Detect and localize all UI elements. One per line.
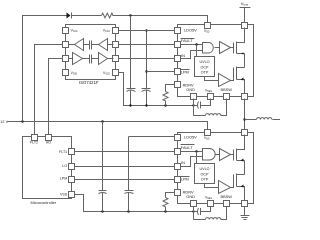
svg-text:GND: GND [186, 194, 195, 199]
svg-text:OCP: OCP [201, 65, 210, 69]
U3 internal IN wire [181, 51, 203, 59]
U4 pin SOURCE [242, 201, 248, 207]
U4 pin VDD [204, 130, 211, 141]
U4 driver buffer low [205, 181, 234, 194]
svg-text:OTP: OTP [201, 178, 209, 182]
svg-text:LDO5V: LDO5V [184, 28, 197, 33]
inductor L2 (output filter) [245, 118, 281, 120]
wire FLT1 to low-side FAULT [75, 151, 175, 153]
wire bootstrap rail [23, 16, 208, 122]
svg-text:LPM: LPM [60, 177, 67, 181]
wire switch node [244, 99, 246, 130]
U3 Si FET Q2 [234, 54, 245, 94]
junction FAULT / UVLO low [195, 150, 197, 152]
microcontroller pin VSS [60, 192, 75, 198]
wire VNEG circuit high-side [194, 99, 211, 116]
isolator U1 pin INB [113, 42, 119, 48]
U4 pin RDRV [175, 189, 194, 195]
svg-text:LPM: LPM [181, 69, 189, 74]
svg-text:VSS2: VSS2 [103, 71, 110, 76]
capacitor C4 (LDO5V low-side bypass) [125, 137, 134, 212]
isolator U1 pin OUTB [63, 42, 69, 48]
ground symbol [241, 207, 250, 220]
svg-text:IN: IN [181, 53, 185, 58]
svg-text:FLT1: FLT1 [59, 150, 67, 154]
svg-text:Microcontroller: Microcontroller [31, 200, 57, 205]
U4 pin FAULT [175, 145, 195, 155]
wire low-side LDO5V [129, 136, 175, 138]
U4 pin GND [186, 194, 196, 206]
svg-text:HO: HO [46, 141, 52, 145]
isolator U1 pin VCC2 [103, 28, 119, 34]
svg-text:12 V: 12 V [0, 120, 8, 124]
U3 internal FAULT wire [181, 44, 203, 46]
U4 pin VNEG [205, 195, 214, 206]
diode D1 bootstrap [67, 13, 72, 19]
wire GND2 to ground rail [119, 73, 194, 106]
wire INB to FAULT [119, 44, 175, 46]
svg-text:LO: LO [62, 164, 67, 168]
wire LO to low-side IN [75, 166, 175, 168]
isolator U1 pin INA [63, 56, 69, 62]
junction LDO5V/VCC2 [145, 29, 147, 31]
junction switch node [243, 118, 245, 120]
junction gnd rail / C1 [129, 104, 131, 106]
node Vbus [240, 1, 251, 23]
gate driver U3 LMG3410 high-side body [178, 25, 254, 97]
svg-text:LPM: LPM [181, 176, 189, 181]
buffer channel B rx (points left) [69, 39, 84, 51]
junction bottom rail / C3 [101, 210, 103, 212]
isolator U1 ISO7421F body [66, 25, 116, 86]
microcontroller U2 body [23, 137, 72, 205]
inductor L1 (buck-boost high-side) [194, 99, 227, 116]
node 12V label [0, 120, 8, 124]
U3 driver buffer low [205, 74, 234, 87]
isolator U1 pin GND2 [103, 70, 118, 76]
U3 pin IN [175, 53, 186, 61]
microcontroller pin FLT1 [59, 149, 74, 155]
U3 pin LPM [175, 69, 190, 75]
junction boot rail / VDD cap [129, 14, 131, 16]
U3 pin LDO5V [175, 28, 198, 34]
svg-text:IN: IN [181, 160, 185, 165]
U4 pin LDO5V [175, 135, 198, 141]
isolator U1 pin VCC1 [63, 28, 79, 34]
U4 internal IN wire [181, 157, 203, 167]
microcontroller pin LO [62, 164, 74, 170]
svg-text:OCP: OCP [201, 172, 210, 176]
U3 UVLO/OCP/OTP block [195, 45, 215, 77]
capacitor C1 (VDD high-side bypass) [127, 16, 136, 106]
svg-text:ISO7421F: ISO7421F [79, 80, 99, 85]
wire VSS to bottom ground rail [75, 195, 194, 212]
svg-text:VCC1: VCC1 [71, 29, 79, 34]
U3 pin DRAIN [242, 23, 248, 29]
microcontroller pin LPM [60, 177, 75, 183]
wire OUTA to IN [119, 58, 175, 60]
isolation capacitor channel B [84, 41, 99, 50]
svg-text:OTP: OTP [201, 71, 209, 75]
inductor L3 (buck-boost low-side) [194, 207, 227, 220]
gate driver U4 LMG3410 low-side body [178, 133, 254, 204]
buffer channel A rx (points right) [99, 53, 114, 65]
resistor R3 (RDRV low-side) [163, 193, 175, 212]
capacitor C3 (12V bypass) [99, 122, 107, 212]
buffer channel B tx (points left) [99, 39, 114, 51]
svg-text:VSS: VSS [60, 193, 68, 197]
U3 driver buffer high [215, 42, 234, 54]
junction 12V/bypass cap [101, 120, 103, 122]
wire VNEG circuit low-side [194, 207, 211, 220]
svg-text:UVLO: UVLO [199, 60, 209, 64]
U4 Si FET Q4 [234, 161, 245, 201]
isolation capacitor channel A [83, 55, 99, 64]
svg-text:BBSW: BBSW [221, 194, 233, 199]
U3 pin FAULT [175, 38, 195, 48]
U4 AND gate [203, 149, 216, 161]
resistor R1 bootstrap [102, 13, 114, 18]
U3 pin SOURCE [242, 94, 248, 100]
junction gnd rail / C2 [145, 104, 147, 106]
U3 pin VNEG [205, 88, 214, 99]
junction bottom rail / GND pin low [192, 210, 194, 212]
U4 pin BBSW [221, 194, 233, 206]
U4 pin LPM [175, 176, 190, 182]
wire LPM to low-side LPM [75, 179, 175, 181]
U3 pin GND [186, 87, 196, 99]
U4 GaN FET Q3 [234, 135, 245, 162]
isolator U1 pin OUTA [113, 56, 119, 62]
isolator U1 pin GND1 [63, 70, 79, 76]
junction gnd rail / GND pin [192, 104, 194, 106]
junction gnd rail / RDRV resistor [164, 104, 166, 106]
junction LDO5V/LPM tie [145, 70, 147, 72]
wire HO to ISO INA [49, 59, 63, 135]
U4 internal FAULT wire [181, 151, 203, 153]
U3 pin BBSW [221, 87, 233, 99]
svg-text:FLT2: FLT2 [30, 141, 38, 145]
U4 UVLO/OCP/OTP block [195, 152, 215, 184]
microcontroller pin HO [46, 135, 52, 145]
junction FAULT / UVLO [195, 43, 197, 45]
buffer channel A tx (points right) [69, 53, 83, 65]
resistor R2 (RDRV high-side) [163, 85, 175, 106]
svg-text:Vbus: Vbus [241, 1, 249, 7]
wire LPM tie [147, 71, 175, 73]
wire VCC2 to LDO5V [119, 30, 175, 32]
svg-text:BBSW: BBSW [221, 87, 233, 92]
microcontroller pin FLT2 [30, 135, 38, 145]
U4 pin DRAIN [242, 130, 248, 136]
capacitor C2 (LDO5V high-side bypass) [142, 31, 151, 106]
U3 pin RDRV [175, 82, 194, 88]
wire FLT2 to ISO OUTB [35, 45, 63, 135]
svg-text:VCC2: VCC2 [103, 29, 111, 34]
junction bottom rail / C4 [127, 210, 129, 212]
junction 12V/boot feed [21, 120, 23, 122]
U3 pin VDD [204, 23, 211, 34]
U4 driver buffer high [215, 149, 234, 161]
svg-text:FAULT: FAULT [181, 145, 193, 150]
U3 GaN FET Q1 [234, 28, 245, 55]
svg-text:LDO5V: LDO5V [184, 135, 197, 140]
svg-text:VSS1: VSS1 [71, 71, 78, 76]
svg-text:UVLO: UVLO [199, 167, 209, 171]
wire 12V rail [8, 122, 208, 130]
U4 pin IN [175, 160, 186, 169]
svg-text:GND: GND [186, 87, 195, 92]
junction bottom rail / RDRV resistor low [164, 210, 166, 212]
U3 AND gate [203, 43, 214, 54]
